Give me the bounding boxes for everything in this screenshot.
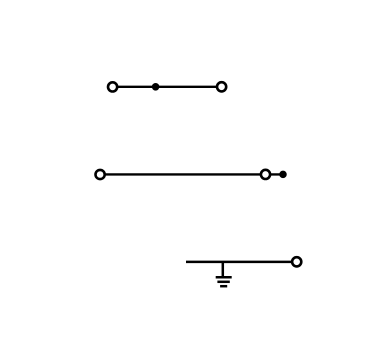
wire: level 2 stub from right clamp to junction <box>266 173 284 175</box>
terminal circle: level 3 right clamp point <box>292 257 301 266</box>
junction dot at level 2 right end <box>279 171 287 179</box>
terminal circle: level 1 left clamp point <box>108 82 117 91</box>
junction dot on level 1 wire <box>152 83 160 91</box>
wire: level 3 conductor <box>186 261 297 264</box>
terminal circle: level 1 right clamp point <box>217 82 226 91</box>
terminal circle: level 2 right clamp point <box>261 170 270 179</box>
terminal circle: level 2 left clamp point <box>96 170 105 179</box>
wire: level 1 conductor <box>113 86 222 88</box>
ground <box>216 262 232 286</box>
wire: level 2 conductor <box>100 173 265 175</box>
